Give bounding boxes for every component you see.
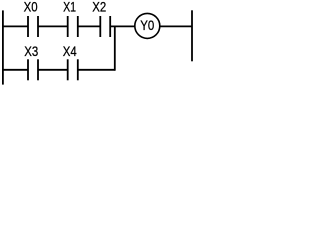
svg-text:Y0: Y0 bbox=[140, 17, 154, 33]
contact X0 bbox=[28, 16, 38, 37]
right power rail bbox=[191, 10, 193, 61]
svg-text:X3: X3 bbox=[24, 43, 38, 59]
svg-text:X0: X0 bbox=[24, 0, 38, 15]
wire: left rail to contact X0 bbox=[2, 25, 28, 27]
svg-text:X2: X2 bbox=[92, 0, 106, 15]
contact X2 bbox=[100, 16, 110, 37]
coil Y0 circle bbox=[135, 13, 160, 38]
wire: X4 to branch corner bbox=[78, 69, 115, 71]
left power rail bbox=[2, 10, 4, 84]
wire: coil Y0 to right rail bbox=[160, 25, 192, 27]
wire: X2 to coil Y0 (through branch junction) bbox=[110, 25, 135, 27]
wire: left rail to contact X3 (bottom rung) bbox=[2, 69, 28, 71]
wire: branch vertical joining bottom rung to top rung bbox=[114, 26, 116, 71]
wire: X0 to X1 bbox=[38, 25, 68, 27]
contact X3 bbox=[28, 59, 38, 80]
svg-text:X4: X4 bbox=[63, 43, 77, 59]
wire: X3 to X4 bbox=[38, 69, 68, 71]
svg-text:X1: X1 bbox=[63, 0, 76, 15]
contact X1 bbox=[68, 16, 78, 37]
contact X4 bbox=[68, 59, 78, 80]
wire: X1 to X2 bbox=[78, 25, 101, 27]
